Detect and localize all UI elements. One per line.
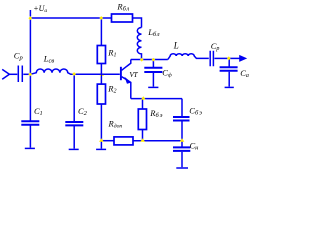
resistor Rbl	[112, 14, 133, 22]
wire Rbl to choke	[133, 18, 142, 28]
wire R1 top	[100, 18, 102, 46]
ground Ca	[225, 86, 234, 88]
svg-text:C2: C2	[78, 106, 88, 117]
capacitor Cf plates	[144, 68, 162, 72]
svg-text:R2: R2	[107, 84, 116, 95]
wire Cn to ground	[181, 152, 183, 167]
wire C2 to ground	[73, 126, 75, 149]
wire bottom link rail	[133, 140, 182, 142]
svg-text:C1: C1	[34, 106, 43, 117]
wire Cn branch	[181, 141, 183, 148]
svg-text:Cф: Cф	[162, 67, 172, 78]
svg-text:Rбэ: Rбэ	[149, 108, 163, 119]
wire collector	[122, 60, 131, 71]
capacitor C1 plates	[21, 121, 39, 124]
ground C1	[25, 147, 35, 149]
node Rdop left triangle	[99, 138, 104, 141]
capacitor Cn plates	[173, 147, 190, 151]
node input	[28, 73, 32, 77]
capacitor Cp output plates	[210, 51, 213, 66]
svg-text:R1: R1	[107, 48, 116, 59]
transistor VT emitter	[122, 77, 131, 99]
emitter arrow	[125, 78, 130, 83]
node Cf	[152, 58, 156, 62]
capacitor Cp input plates	[18, 66, 22, 83]
wire Cf to ground	[152, 73, 154, 87]
capacitor Ca plates	[220, 67, 238, 71]
node top R1	[99, 16, 103, 20]
wire cap to rail	[23, 73, 29, 75]
svg-text:Lсв: Lсв	[43, 54, 55, 65]
node Re bottom triangle	[140, 138, 145, 141]
inductor Lbl choke	[137, 28, 141, 60]
wire Ca branch	[228, 58, 230, 67]
capacitor Ce plates	[173, 117, 190, 121]
wire Ce bottom	[181, 122, 183, 141]
capacitor C2 plates	[65, 122, 83, 125]
svg-text:Cбэ: Cбэ	[189, 106, 203, 117]
wire left rail	[29, 18, 31, 121]
wire collector rail	[131, 59, 168, 61]
wire emitter rail	[131, 98, 182, 100]
ground Cn	[176, 167, 188, 169]
wire R2 top	[100, 74, 102, 84]
node supply	[28, 16, 32, 20]
resistor R2	[97, 84, 105, 104]
node choke collector	[140, 58, 144, 62]
svg-text:Lбл: Lбл	[147, 27, 160, 38]
svg-text:Cа: Cа	[240, 68, 249, 79]
node base divider	[100, 75, 101, 76]
resistor Rdop	[114, 137, 133, 145]
wire Re top	[142, 99, 144, 109]
wire input to cap	[9, 73, 17, 75]
wire Re bottom	[142, 130, 144, 141]
wire R2 bottom	[100, 104, 102, 149]
node emitter Re triangle	[141, 96, 146, 99]
inductor Lsv	[30, 69, 74, 74]
ground R2	[96, 148, 106, 150]
svg-text:VT: VT	[129, 70, 138, 79]
wire top rail	[30, 17, 112, 19]
wire Cf branch	[152, 60, 154, 68]
ground C2	[69, 148, 79, 150]
svg-text:Rдоп: Rдоп	[108, 119, 123, 130]
svg-text:Cр: Cр	[211, 41, 220, 52]
svg-text:+Uа: +Uа	[33, 4, 47, 14]
inductor L tank	[168, 54, 209, 60]
wire R1 bottom	[100, 64, 102, 75]
wire base	[74, 73, 120, 75]
supply stub +Ua	[29, 10, 31, 17]
svg-text:Cн: Cн	[190, 141, 199, 152]
node Ce Cn triangle	[180, 138, 185, 141]
svg-text:L: L	[173, 40, 179, 50]
svg-text:Cр: Cр	[14, 50, 24, 61]
wire C2 branch	[73, 74, 75, 122]
wire cap to arrow node	[214, 57, 228, 59]
input chevron	[2, 69, 9, 79]
output arrow	[229, 57, 240, 59]
wire Rdop left	[101, 140, 114, 142]
wire Ca to ground	[228, 72, 230, 87]
node coil out	[72, 72, 76, 76]
svg-text:Rбл: Rбл	[116, 2, 130, 13]
ground Cf	[148, 86, 158, 88]
wire Ce branch	[181, 99, 183, 117]
transistor VT base bar	[120, 67, 122, 80]
node output	[227, 56, 231, 60]
resistor Re	[138, 109, 146, 130]
resistor R1	[97, 46, 105, 64]
wire C1 to ground	[29, 125, 31, 148]
